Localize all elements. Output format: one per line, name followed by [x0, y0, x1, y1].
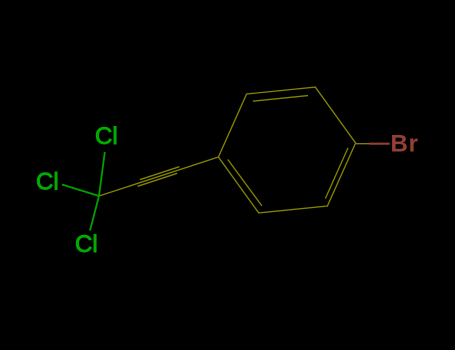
svg-text:Cl: Cl: [36, 169, 59, 196]
svg-text:Br: Br: [391, 130, 419, 157]
svg-text:Cl: Cl: [75, 231, 98, 258]
svg-text:Cl: Cl: [95, 123, 118, 150]
